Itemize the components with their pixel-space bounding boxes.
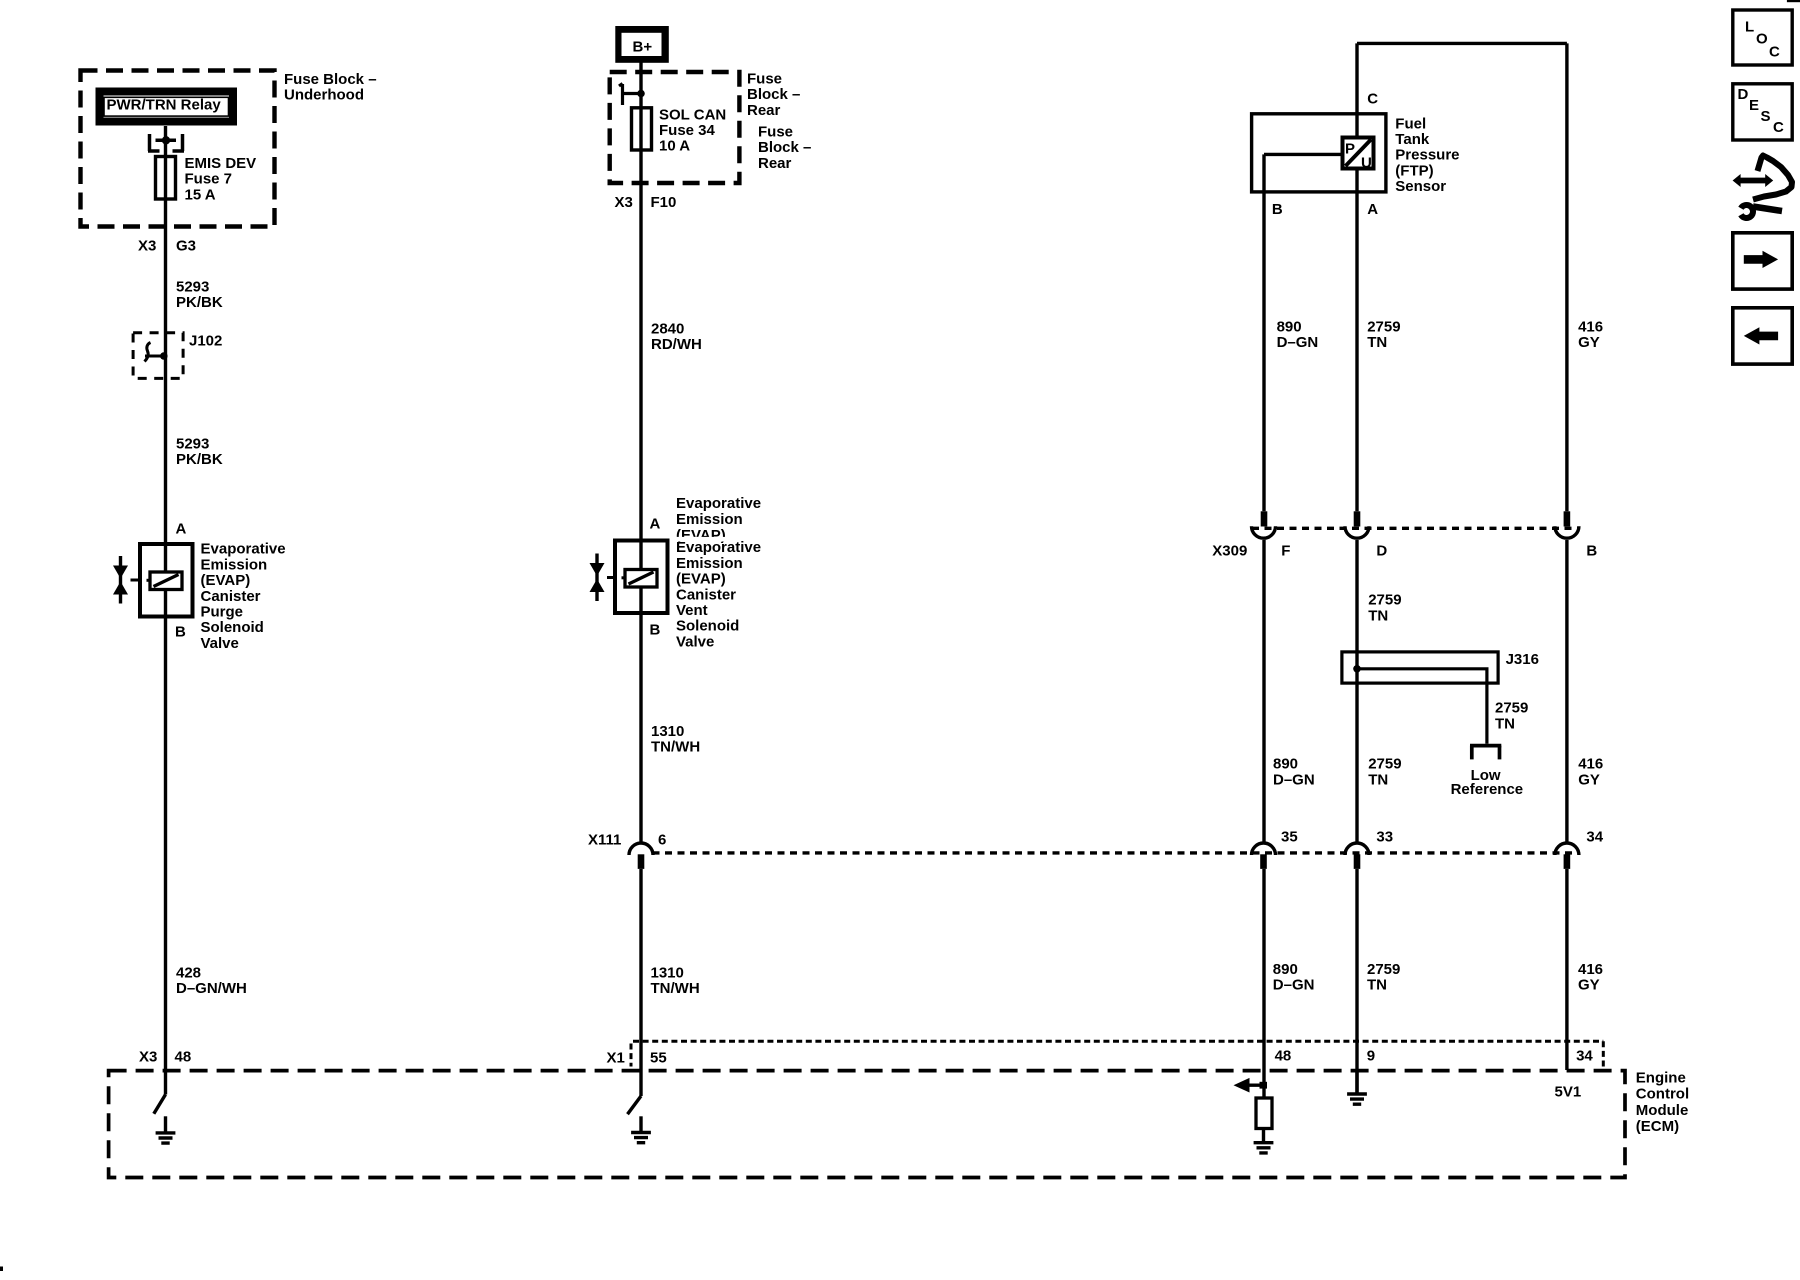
svg-text:2759: 2759 [1495, 700, 1528, 717]
svg-text:B: B [1586, 542, 1597, 559]
svg-text:X111: X111 [588, 832, 621, 849]
svg-text:Emission: Emission [676, 511, 743, 528]
svg-text:890: 890 [1273, 756, 1298, 773]
svg-text:Rear: Rear [747, 102, 781, 119]
svg-text:F10: F10 [651, 194, 677, 211]
svg-text:Block –: Block – [747, 86, 800, 103]
svg-text:Canister: Canister [201, 588, 261, 605]
svg-text:(ECM): (ECM) [1636, 1118, 1679, 1135]
svg-text:10 A: 10 A [659, 138, 690, 155]
svg-text:GY: GY [1578, 334, 1600, 351]
svg-text:RD/WH: RD/WH [651, 336, 702, 353]
svg-text:416: 416 [1578, 318, 1603, 335]
svg-text:J316: J316 [1506, 651, 1539, 668]
svg-text:S: S [1761, 108, 1771, 125]
svg-text:Fuse 7: Fuse 7 [185, 171, 233, 188]
svg-text:5293: 5293 [176, 436, 209, 453]
svg-text:A: A [176, 521, 187, 538]
svg-text:EMIS DEV: EMIS DEV [185, 155, 257, 172]
svg-text:C: C [1367, 90, 1378, 107]
svg-text:D: D [1376, 542, 1387, 559]
svg-text:Evaporative: Evaporative [201, 541, 286, 558]
svg-text:2759: 2759 [1367, 318, 1400, 335]
svg-text:Module: Module [1636, 1102, 1689, 1119]
svg-text:Reference: Reference [1451, 781, 1524, 798]
svg-text:B: B [1272, 201, 1283, 218]
svg-text:34: 34 [1586, 828, 1603, 845]
svg-text:Fuse Block –: Fuse Block – [284, 71, 377, 88]
svg-text:Valve: Valve [201, 635, 239, 652]
svg-text:B: B [175, 624, 186, 641]
svg-text:C: C [1769, 43, 1780, 60]
svg-text:1310: 1310 [651, 723, 684, 740]
svg-text:35: 35 [1281, 828, 1298, 845]
svg-text:Emission: Emission [676, 555, 743, 572]
svg-text:Solenoid: Solenoid [201, 619, 264, 636]
svg-text:TN: TN [1368, 607, 1388, 624]
svg-text:(FTP): (FTP) [1395, 162, 1433, 179]
svg-text:5V1: 5V1 [1555, 1084, 1582, 1101]
svg-text:TN: TN [1367, 977, 1387, 994]
svg-text:1310: 1310 [651, 964, 684, 981]
svg-text:(EVAP): (EVAP) [676, 571, 726, 588]
svg-text:C: C [1773, 119, 1784, 136]
svg-text:X3: X3 [139, 1049, 157, 1066]
svg-text:D–GN: D–GN [1273, 771, 1315, 788]
svg-text:48: 48 [1275, 1047, 1292, 1064]
svg-text:Vent: Vent [676, 602, 708, 619]
svg-text:Sensor: Sensor [1395, 178, 1446, 195]
svg-text:Valve: Valve [676, 633, 714, 650]
svg-text:GY: GY [1578, 771, 1600, 788]
svg-text:J102: J102 [189, 333, 222, 350]
svg-text:55: 55 [650, 1049, 667, 1066]
svg-text:B+: B+ [633, 39, 653, 56]
svg-text:Engine: Engine [1636, 1069, 1686, 1086]
svg-text:E: E [1749, 97, 1759, 114]
svg-text:890: 890 [1273, 961, 1298, 978]
svg-text:Fuse 34: Fuse 34 [659, 122, 716, 139]
svg-text:L: L [1745, 18, 1754, 35]
svg-text:416: 416 [1578, 961, 1603, 978]
svg-text:A: A [1367, 201, 1378, 218]
svg-text:890: 890 [1277, 318, 1302, 335]
svg-text:48: 48 [175, 1049, 192, 1066]
svg-text:2759: 2759 [1367, 961, 1400, 978]
svg-text:X3: X3 [615, 194, 633, 211]
svg-text:Fuse: Fuse [747, 70, 782, 87]
svg-text:GY: GY [1578, 977, 1600, 994]
svg-text:Rear: Rear [758, 155, 792, 172]
svg-text:Control: Control [1636, 1086, 1689, 1103]
svg-text:PWR/TRN Relay: PWR/TRN Relay [107, 96, 222, 113]
svg-text:(EVAP): (EVAP) [201, 572, 251, 589]
svg-text:Fuse: Fuse [758, 124, 793, 141]
svg-text:SOL CAN: SOL CAN [659, 106, 726, 123]
svg-text:15 A: 15 A [185, 186, 216, 203]
svg-text:X1: X1 [607, 1049, 625, 1066]
svg-text:B: B [650, 622, 661, 639]
svg-text:9: 9 [1367, 1047, 1375, 1064]
svg-text:TN: TN [1495, 715, 1515, 732]
svg-text:Pressure: Pressure [1395, 147, 1459, 164]
svg-text:O: O [1756, 30, 1768, 47]
svg-text:2759: 2759 [1368, 592, 1401, 609]
svg-text:2840: 2840 [651, 320, 684, 337]
svg-text:33: 33 [1376, 828, 1393, 845]
svg-text:X3: X3 [138, 238, 156, 255]
svg-text:428: 428 [176, 964, 201, 981]
svg-text:G3: G3 [176, 238, 196, 255]
svg-text:U: U [1361, 154, 1372, 171]
svg-text:D: D [1738, 86, 1749, 103]
svg-text:PK/BK: PK/BK [176, 294, 223, 311]
svg-text:34: 34 [1576, 1047, 1593, 1064]
svg-text:TN: TN [1368, 771, 1388, 788]
svg-text:Purge: Purge [201, 604, 244, 621]
svg-text:416: 416 [1578, 756, 1603, 773]
svg-text:Solenoid: Solenoid [676, 618, 739, 635]
svg-text:Tank: Tank [1395, 131, 1430, 148]
svg-text:X309: X309 [1212, 542, 1247, 559]
svg-text:D–GN: D–GN [1273, 977, 1315, 994]
svg-text:PK/BK: PK/BK [176, 451, 223, 468]
svg-text:Emission: Emission [201, 556, 268, 573]
svg-text:Underhood: Underhood [284, 87, 364, 104]
svg-text:Evaporative: Evaporative [676, 495, 761, 512]
svg-text:Fuel: Fuel [1395, 115, 1426, 132]
svg-text:2759: 2759 [1368, 756, 1401, 773]
svg-text:D–GN: D–GN [1277, 334, 1319, 351]
svg-text:TN/WH: TN/WH [651, 980, 700, 997]
svg-text:P: P [1345, 140, 1355, 157]
svg-text:6: 6 [658, 832, 666, 849]
svg-text:Canister: Canister [676, 586, 736, 603]
svg-text:TN/WH: TN/WH [651, 739, 700, 756]
svg-text:D–GN/WH: D–GN/WH [176, 980, 247, 997]
svg-text:Evaporative: Evaporative [676, 539, 761, 556]
svg-text:F: F [1281, 542, 1290, 559]
svg-text:Block –: Block – [758, 139, 811, 156]
svg-text:A: A [650, 516, 661, 533]
svg-text:5293: 5293 [176, 278, 209, 295]
svg-text:TN: TN [1367, 334, 1387, 351]
